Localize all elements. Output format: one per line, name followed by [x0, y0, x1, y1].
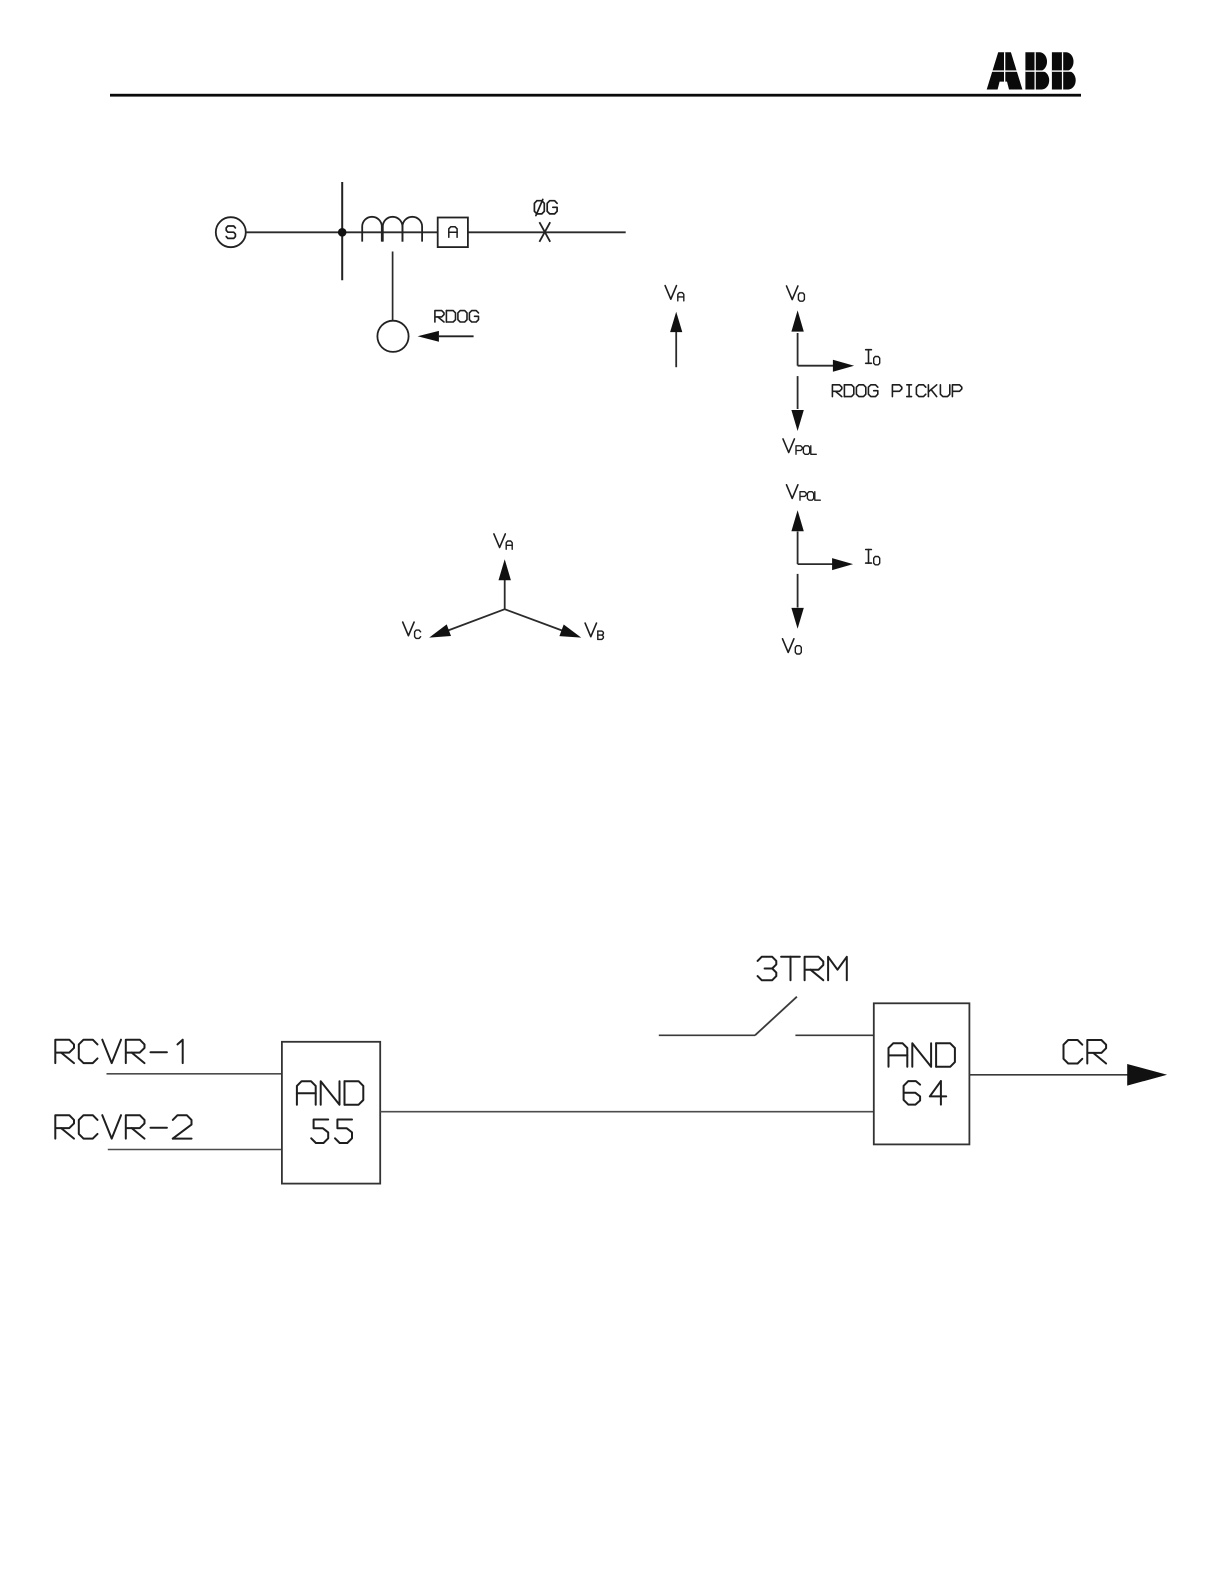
IO right arrow (phasor 2) [798, 563, 833, 565]
label VO (phasor 1) [787, 286, 798, 300]
wire RCVR-2 input [108, 1149, 282, 1151]
label RDOG [435, 311, 444, 322]
label RCVR-1 [55, 1040, 74, 1063]
AND 55 gate box [282, 1042, 380, 1184]
VPOL down arrow [797, 376, 799, 409]
junction dot [338, 228, 347, 237]
source S circle [216, 217, 246, 247]
label IO (phasor 2) [866, 549, 872, 551]
label VPOL (phasor 2) [787, 485, 798, 499]
label VA [665, 286, 676, 300]
wire source to fault (main line) [246, 231, 626, 233]
contact 3TRM switch [659, 1034, 755, 1036]
VA phasor arrow [675, 331, 677, 367]
label IO (phasor 1) [866, 349, 872, 351]
fault mark X [539, 222, 550, 242]
wire AND55 to AND64 [380, 1111, 874, 1113]
header rule [110, 94, 1081, 97]
VO down arrow [797, 574, 799, 608]
wire RCVR-1 input [107, 1073, 282, 1075]
VC phasor [447, 609, 505, 631]
relay box A [438, 218, 468, 248]
IO right arrow [798, 365, 834, 367]
label VC [403, 622, 414, 636]
wire inductor neutral down [392, 252, 394, 321]
label phase-ground fault ØG [534, 201, 544, 214]
label VA (three-phase) [494, 534, 505, 548]
bus vertical line [341, 182, 343, 280]
label 3TRM [758, 957, 777, 969]
CR output arrow [969, 1074, 1128, 1076]
VPOL up arrow [797, 532, 799, 565]
label RCVR-2 [55, 1115, 74, 1138]
label VPOL (phasor 1) [783, 439, 794, 453]
label VB [585, 623, 596, 637]
inductor (transformer winding) [362, 217, 382, 242]
VO up arrow [797, 333, 799, 366]
label CR [1064, 1040, 1083, 1064]
label RDOG PICKUP [832, 385, 841, 397]
VB phasor [505, 609, 564, 631]
RDOG relay circle [377, 321, 408, 352]
ABB logo [984, 52, 1077, 89]
RDOG arrow [439, 335, 474, 337]
label VO (phasor 2) [783, 639, 794, 653]
AND 64 gate box [874, 1003, 970, 1144]
VA up phasor [504, 580, 506, 610]
